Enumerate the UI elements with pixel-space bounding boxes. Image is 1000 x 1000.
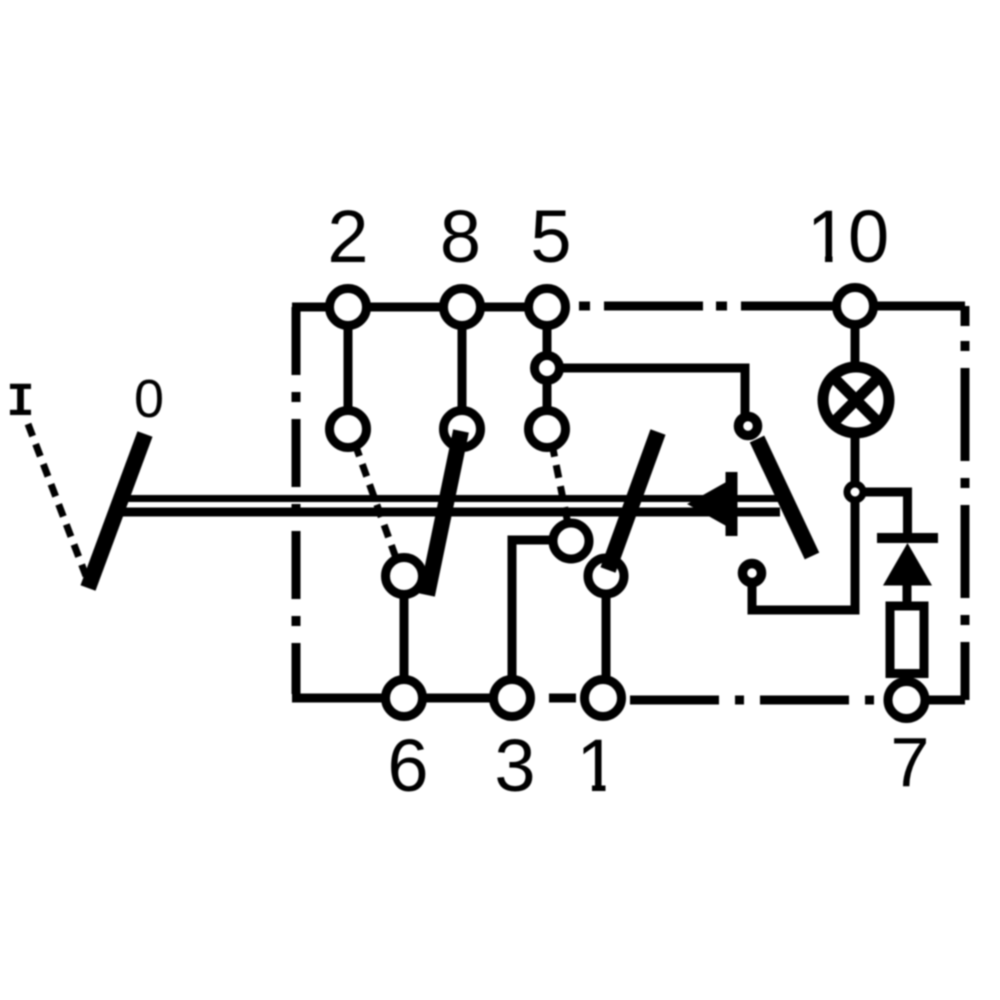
svg-text:8: 8 <box>440 195 481 278</box>
svg-text:10: 10 <box>807 195 889 278</box>
svg-text:6: 6 <box>387 724 428 807</box>
svg-text:7: 7 <box>891 723 930 801</box>
svg-text:0: 0 <box>134 369 164 429</box>
svg-text:2: 2 <box>327 195 368 278</box>
svg-text:5: 5 <box>530 195 571 278</box>
svg-text:I: I <box>6 377 34 430</box>
svg-text:1: 1 <box>576 724 617 807</box>
svg-text:3: 3 <box>494 724 535 807</box>
